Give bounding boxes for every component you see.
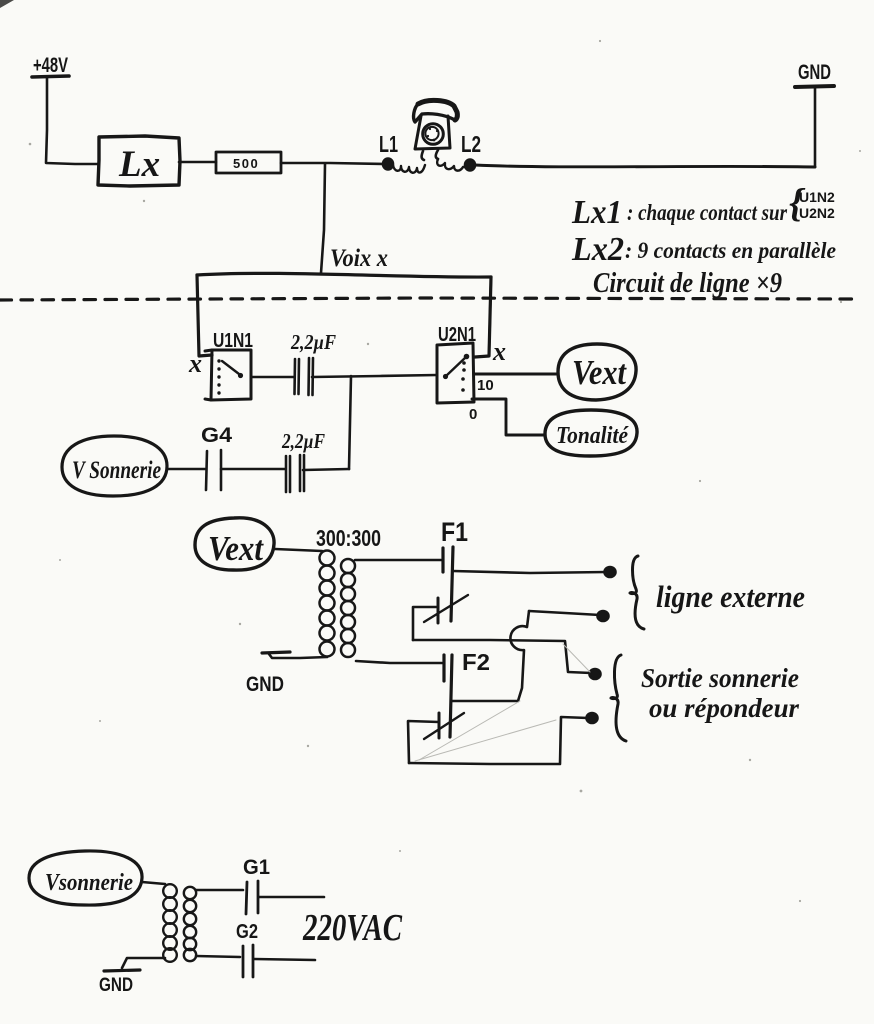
wire riser with hop xyxy=(510,611,529,701)
svg-text:F1: F1 xyxy=(441,517,468,547)
wire xyxy=(453,571,607,573)
svg-text:G1: G1 xyxy=(243,856,270,879)
svg-text:2,2µF: 2,2µF xyxy=(281,429,325,453)
svg-text:Vsonnerie: Vsonnerie xyxy=(45,870,133,896)
wire xyxy=(312,375,437,377)
line circuit box xyxy=(197,273,491,277)
wire xyxy=(408,721,439,763)
svg-text:F2: F2 xyxy=(462,649,490,675)
paper corner smudge xyxy=(0,0,14,8)
svg-text:500: 500 xyxy=(233,156,259,171)
svg-text:0: 0 xyxy=(469,406,477,423)
svg-text:10: 10 xyxy=(477,377,494,394)
transformer sonnerie xyxy=(163,884,196,962)
trimmer capacitor F1 xyxy=(437,598,440,623)
resistor 500 xyxy=(216,152,281,173)
ground GND xyxy=(262,652,290,653)
node terminal 1 xyxy=(605,567,616,577)
note Lx1 xyxy=(571,180,835,231)
wire xyxy=(475,165,815,167)
wire phone cord right xyxy=(437,159,467,171)
wire xyxy=(179,161,216,164)
svg-text:Circuit de ligne ×9: Circuit de ligne ×9 xyxy=(593,268,782,299)
brace sortie sonnerie xyxy=(611,655,626,741)
node Vext 2 xyxy=(195,518,274,570)
node Vext xyxy=(558,344,636,400)
svg-text:220VAC: 220VAC xyxy=(302,907,402,949)
svg-text:: 9 contacts en parallèle: : 9 contacts en parallèle xyxy=(625,238,836,263)
svg-text:GND: GND xyxy=(798,61,831,84)
svg-text:: chaque contact sur: : chaque contact sur xyxy=(627,200,788,225)
note Lx2 xyxy=(571,231,836,268)
svg-text:Lx1: Lx1 xyxy=(571,194,622,231)
node Vsonnerie xyxy=(29,851,142,905)
wire xyxy=(122,958,165,968)
wire xyxy=(254,959,315,960)
brace ligne externe xyxy=(630,556,644,629)
svg-text:Voix x: Voix x xyxy=(330,245,388,272)
svg-text:+48V: +48V xyxy=(33,54,68,77)
node V Sonnerie xyxy=(62,436,167,496)
wire xyxy=(251,376,294,379)
wire xyxy=(303,469,349,470)
svg-text:x: x xyxy=(188,349,202,378)
wire xyxy=(529,611,600,615)
svg-text:Lx: Lx xyxy=(118,144,160,185)
wire 0 terminal xyxy=(472,399,545,435)
svg-text:G2: G2 xyxy=(236,921,258,943)
wire xyxy=(196,956,240,957)
node terminal 2 xyxy=(590,669,601,679)
wire 10 terminal xyxy=(474,373,556,376)
wire xyxy=(413,607,438,640)
wire phone cord left xyxy=(393,165,425,173)
wire xyxy=(269,654,327,658)
svg-text:GND: GND xyxy=(246,673,284,696)
wire Voix x drop xyxy=(321,164,325,273)
wire xyxy=(275,549,322,551)
wire xyxy=(259,896,324,899)
wire xyxy=(355,559,441,562)
svg-text:Vext: Vext xyxy=(572,353,627,392)
svg-text:G4: G4 xyxy=(201,424,232,447)
wire xyxy=(409,717,588,764)
faint pencil construction lines xyxy=(415,644,590,761)
svg-text:U1N2: U1N2 xyxy=(799,189,835,205)
wire xyxy=(221,468,285,471)
svg-text:300:300: 300:300 xyxy=(316,525,381,551)
svg-text:x: x xyxy=(492,337,506,366)
wire xyxy=(167,468,205,471)
svg-text:Tonalité: Tonalité xyxy=(556,423,629,449)
ground GND right xyxy=(814,88,817,167)
svg-text:L2: L2 xyxy=(461,131,481,157)
wire xyxy=(196,889,243,892)
svg-text:ligne externe: ligne externe xyxy=(656,579,805,614)
svg-text:2,2µF: 2,2µF xyxy=(290,330,336,354)
svg-text:ou répondeur: ou répondeur xyxy=(649,693,799,723)
svg-text:V Sonnerie: V Sonnerie xyxy=(72,457,161,484)
wire x terminal xyxy=(474,277,491,357)
node Tonalite xyxy=(545,410,637,456)
svg-text:Vext: Vext xyxy=(208,529,264,568)
node terminal 4 xyxy=(587,713,598,723)
wire xyxy=(356,661,442,663)
svg-text:U2N2: U2N2 xyxy=(799,205,835,221)
wire xyxy=(413,640,591,673)
svg-text:L1: L1 xyxy=(379,131,398,157)
wire junction drop xyxy=(349,376,351,469)
dashed separator line xyxy=(0,298,852,300)
relay Lx xyxy=(98,136,180,186)
ground GND bottom xyxy=(104,970,140,971)
trimmer capacitor F2 xyxy=(438,713,441,738)
svg-text:Lx2: Lx2 xyxy=(571,231,624,268)
wire xyxy=(142,882,165,884)
wire xyxy=(281,163,383,164)
svg-text:Sortie sonnerie: Sortie sonnerie xyxy=(641,663,799,693)
wire xyxy=(46,78,99,164)
node terminal 3 xyxy=(598,611,609,621)
telephone xyxy=(414,100,458,160)
svg-text:GND: GND xyxy=(99,975,133,996)
wire xyxy=(451,700,518,703)
